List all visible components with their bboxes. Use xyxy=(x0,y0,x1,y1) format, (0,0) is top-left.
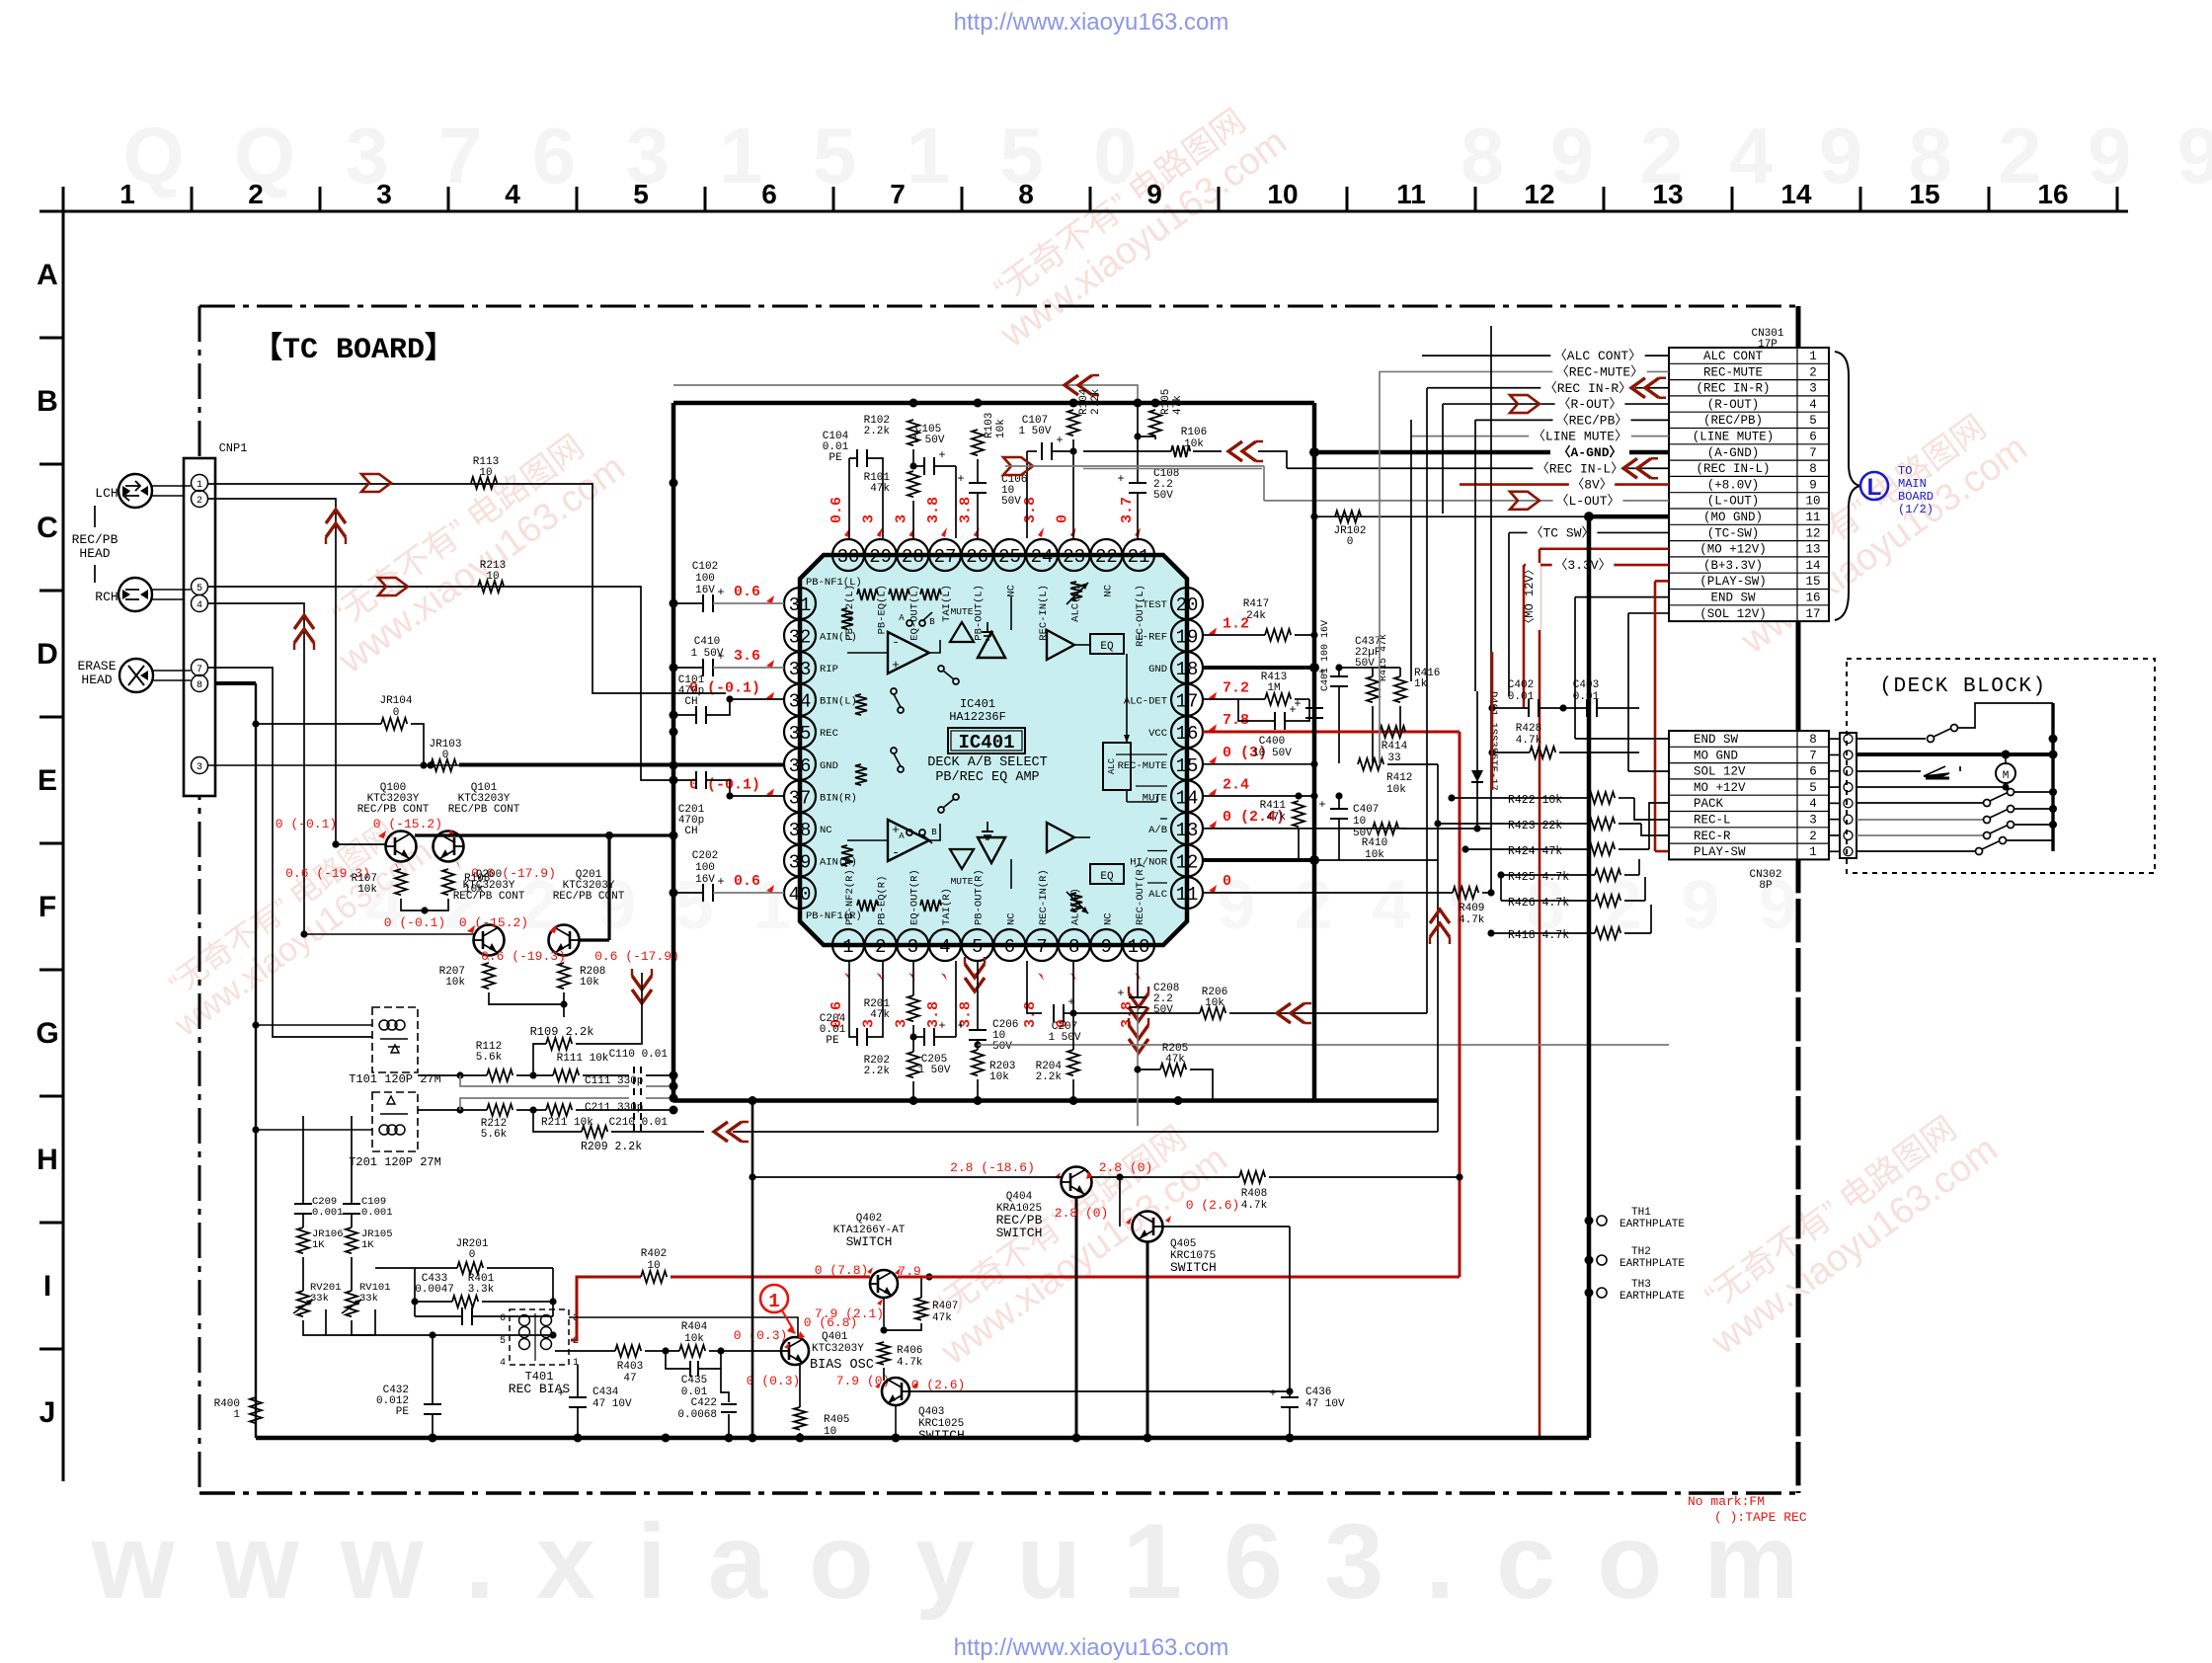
svg-text:16: 16 xyxy=(1805,592,1820,605)
resistor R400 xyxy=(250,1397,262,1423)
IC401 pin 28 xyxy=(897,539,928,571)
wire r204 xyxy=(1072,961,1074,1050)
transformer T401 xyxy=(510,1309,569,1365)
wire B+3.3V xyxy=(1524,564,1669,567)
svg-text:3.8: 3.8 xyxy=(1022,1001,1039,1028)
svg-text:PLAY-SW: PLAY-SW xyxy=(1694,845,1746,859)
svg-text:C435: C435 xyxy=(681,1375,707,1386)
wire r423 xyxy=(1438,823,1589,825)
svg-text:CNP1: CNP1 xyxy=(219,441,248,455)
svg-text:0: 0 xyxy=(1055,515,1071,523)
chev up1 xyxy=(326,510,346,523)
svg-text:30: 30 xyxy=(837,546,860,568)
svg-text:A: A xyxy=(899,613,905,623)
resistor R209 xyxy=(582,1126,607,1138)
svg-text:0 (2.6): 0 (2.6) xyxy=(911,1378,966,1392)
CN301 brace xyxy=(1835,352,1860,620)
IC401 pin 39 xyxy=(784,844,816,876)
svg-text:C401 100 16V: C401 100 16V xyxy=(1320,620,1331,691)
switch A/B bottom xyxy=(907,830,912,835)
svg-text:RIP: RIP xyxy=(820,664,838,675)
svg-text:SWITCH: SWITCH xyxy=(846,1234,893,1249)
svg-text:0 (-0.1): 0 (-0.1) xyxy=(276,817,337,831)
svg-text:L: L xyxy=(1867,474,1882,501)
wire r105 xyxy=(1138,436,1155,439)
IC401 pin 3 xyxy=(897,929,928,961)
svg-text:LCH: LCH xyxy=(95,486,118,501)
resistor R411 xyxy=(1293,801,1304,827)
IC401 pin 25 xyxy=(993,539,1025,571)
svg-text:1: 1 xyxy=(768,1291,779,1312)
resistor R409 xyxy=(1453,887,1478,899)
wire c422 xyxy=(721,1369,729,1402)
svg-text:39: 39 xyxy=(789,851,812,873)
svg-text:MUTE: MUTE xyxy=(951,876,974,887)
wire MO GND thin xyxy=(1314,515,1589,517)
svg-text:12: 12 xyxy=(1176,851,1199,873)
IC401 pin 2 xyxy=(865,929,897,961)
svg-text:3: 3 xyxy=(197,762,202,773)
junction xyxy=(670,761,678,770)
svg-text:(SOL 12V): (SOL 12V) xyxy=(1699,607,1767,621)
wire c436 xyxy=(1289,1407,1291,1438)
svg-text:NC: NC xyxy=(1005,585,1017,597)
resistor JR103 xyxy=(431,759,456,771)
svg-text:4.7k: 4.7k xyxy=(1241,1200,1268,1212)
svg-text:1 50V: 1 50V xyxy=(917,1065,950,1076)
bus 1331 xyxy=(1312,403,1317,1101)
svg-text:24: 24 xyxy=(1031,546,1054,568)
IC401 pin 20 xyxy=(1171,588,1203,619)
svg-text:JR104: JR104 xyxy=(379,695,412,707)
chev up2 xyxy=(294,615,314,629)
wire JR104 xyxy=(256,723,381,725)
TC board border top xyxy=(199,305,1798,308)
svg-text:(+8.0V): (+8.0V) xyxy=(1707,478,1760,492)
deck wire REC-L xyxy=(1856,819,1983,821)
svg-text:+: + xyxy=(717,586,724,599)
capacitor C202 xyxy=(702,884,704,902)
svg-text:1k: 1k xyxy=(1414,678,1428,690)
svg-text:9: 9 xyxy=(1101,936,1112,958)
svg-text:8: 8 xyxy=(1809,733,1817,747)
wire jr201 row xyxy=(302,1116,304,1146)
svg-text:+: + xyxy=(957,1019,964,1033)
resistor R416 xyxy=(1394,676,1406,702)
wire Q200 base xyxy=(304,933,474,935)
svg-text:6: 6 xyxy=(500,1313,506,1324)
bus mo gnd vert xyxy=(1587,516,1592,1438)
svg-text:9: 9 xyxy=(1146,179,1162,209)
svg-text:J: J xyxy=(39,1396,56,1429)
svg-text:10 50V: 10 50V xyxy=(1252,748,1292,759)
wire 3.3V vert xyxy=(1523,565,1526,708)
svg-text:0 (-15.2): 0 (-15.2) xyxy=(459,915,528,930)
svg-text:IC401: IC401 xyxy=(958,732,1014,753)
svg-text:1.2: 1.2 xyxy=(1223,616,1249,633)
IC401 pin 31 xyxy=(784,588,816,619)
wire c111 xyxy=(460,1075,629,1086)
resistor JR105 xyxy=(346,1227,357,1253)
wire c105 xyxy=(912,449,914,466)
svg-text:3.3k: 3.3k xyxy=(468,1284,495,1296)
resistor R401 xyxy=(452,1296,478,1307)
svg-text:R104: R104 xyxy=(1078,388,1090,415)
svg-text:HEAD: HEAD xyxy=(79,546,110,561)
wire c106 line xyxy=(1005,465,1264,467)
wire r103c106 xyxy=(977,459,979,483)
svg-text:NC: NC xyxy=(1102,912,1114,925)
wire SOL 12V xyxy=(1628,612,1669,614)
svg-text:EARTHPLATE: EARTHPLATE xyxy=(1619,1219,1685,1230)
svg-text:1K: 1K xyxy=(312,1239,325,1251)
wire PLAY-SW vert xyxy=(1654,581,1657,851)
resistor R101 xyxy=(908,471,919,497)
svg-text:(TC-SW): (TC-SW) xyxy=(1707,526,1760,540)
svg-text:〈L-OUT〉: 〈L-OUT〉 xyxy=(1555,494,1619,509)
wire MO GND thick xyxy=(1589,515,1669,519)
capacitor C206 xyxy=(969,1029,987,1031)
svg-text:0.0047: 0.0047 xyxy=(415,1284,454,1296)
svg-text:R111 10k: R111 10k xyxy=(557,1053,609,1065)
svg-text:H: H xyxy=(37,1144,58,1176)
wire jr201 xyxy=(375,1267,457,1269)
wire pin4 xyxy=(207,603,304,934)
svg-text:3.8: 3.8 xyxy=(958,497,975,523)
transistor Q403 xyxy=(882,1378,909,1405)
svg-text:3: 3 xyxy=(861,515,878,523)
svg-text:7: 7 xyxy=(890,179,906,209)
capacitor C201 xyxy=(695,771,697,789)
svg-text:R428: R428 xyxy=(1516,723,1541,735)
svg-text:4.7k: 4.7k xyxy=(1459,914,1485,926)
bus bottom xyxy=(673,1098,1438,1103)
svg-text:〈REC-MUTE〉: 〈REC-MUTE〉 xyxy=(1556,364,1643,379)
svg-text:M: M xyxy=(2003,770,2010,782)
wire RCH to CNP1 xyxy=(152,589,191,591)
svg-text:19: 19 xyxy=(1176,627,1199,649)
capacitor C401 xyxy=(1305,707,1323,709)
resistor R426 xyxy=(1595,895,1620,907)
resistor R407 xyxy=(915,1298,927,1320)
connector deck strip xyxy=(1840,733,1856,858)
resistor R424 xyxy=(1589,843,1615,855)
wire R107R108 xyxy=(401,899,448,911)
svg-text:http://www.xiaoyu163.com: http://www.xiaoyu163.com xyxy=(954,1634,1229,1661)
IC401 pin 35 xyxy=(784,716,816,748)
svg-text:+: + xyxy=(1056,434,1063,447)
capacitor C437 xyxy=(1330,675,1348,677)
svg-text:〈REC IN-R〉: 〈REC IN-R〉 xyxy=(1544,381,1631,396)
svg-text:0 (0.3): 0 (0.3) xyxy=(747,1374,801,1388)
wire r425 xyxy=(1501,874,1595,876)
capacitor C433 xyxy=(461,1307,463,1325)
svg-text:16V: 16V xyxy=(695,874,715,886)
svg-text:(MO +12V): (MO +12V) xyxy=(1699,543,1767,557)
svg-text:2.4: 2.4 xyxy=(1223,776,1249,793)
resistor R412 xyxy=(1358,758,1383,770)
EQ box top xyxy=(1090,634,1124,654)
svg-text:1 50V: 1 50V xyxy=(690,648,723,660)
svg-text:〈8V〉: 〈8V〉 xyxy=(1571,478,1613,493)
wire MO +12V xyxy=(1540,547,1669,550)
mute amp top xyxy=(950,622,974,642)
chev down1 xyxy=(632,990,652,1003)
capacitor C402 xyxy=(1528,699,1530,717)
resistor R208 xyxy=(558,963,570,989)
svg-text:4: 4 xyxy=(1809,398,1817,412)
deck wire PLAY-SW xyxy=(1856,850,1975,852)
svg-text:TEST: TEST xyxy=(1143,599,1167,611)
svg-text:〈REC/PB〉: 〈REC/PB〉 xyxy=(1556,413,1628,428)
capacitor C407 xyxy=(1330,808,1348,810)
svg-text:R405: R405 xyxy=(824,1414,849,1426)
svg-text:10k: 10k xyxy=(1205,997,1224,1009)
svg-text:2.8 (-18.6): 2.8 (-18.6) xyxy=(950,1160,1035,1175)
IC401 pin 26 xyxy=(962,539,993,571)
svg-text:20: 20 xyxy=(1176,594,1199,616)
svg-text:SWITCH: SWITCH xyxy=(996,1226,1043,1240)
mute amp bottom xyxy=(950,849,974,869)
resistor R112 xyxy=(487,1069,513,1081)
svg-text:No mark:FM: No mark:FM xyxy=(1688,1494,1765,1509)
res inside 3 xyxy=(855,764,867,785)
wire 1511 vert xyxy=(1491,652,1494,790)
wire RCH pin5 xyxy=(207,587,673,780)
capacitor C107 xyxy=(1041,442,1043,460)
svg-text:22: 22 xyxy=(1095,546,1118,568)
wire R207R208 xyxy=(489,992,564,1004)
svg-text:EQ-OUT(R): EQ-OUT(R) xyxy=(908,869,920,925)
svg-text:17P: 17P xyxy=(1758,339,1777,351)
svg-text:+: + xyxy=(938,448,945,462)
svg-text:6: 6 xyxy=(1004,936,1015,958)
capacitor C434 xyxy=(569,1396,587,1398)
overline pin12 xyxy=(1147,850,1167,852)
bus left vertical xyxy=(671,403,676,1101)
red wire vcc xyxy=(1203,731,1460,734)
wire r426 xyxy=(1501,900,1595,902)
svg-text:T101 120P 27M: T101 120P 27M xyxy=(349,1072,441,1086)
svg-text:4: 4 xyxy=(505,179,520,209)
svg-text:(1/2): (1/2) xyxy=(1898,503,1934,516)
svg-text:GND: GND xyxy=(820,760,838,772)
svg-text:100: 100 xyxy=(695,862,715,874)
capacitor C207 xyxy=(1053,1004,1055,1022)
svg-text:REC/PB CONT: REC/PB CONT xyxy=(448,804,520,816)
svg-text:7.2: 7.2 xyxy=(1223,680,1249,697)
svg-text:END SW: END SW xyxy=(1694,733,1739,747)
svg-text:0: 0 xyxy=(442,750,449,761)
svg-text:1: 1 xyxy=(842,936,853,958)
svg-text:+: + xyxy=(1117,987,1124,1000)
capacitor R413cap xyxy=(1274,712,1276,730)
resistor JR106 xyxy=(297,1227,309,1253)
junction xyxy=(670,599,678,608)
red wire t401 xyxy=(571,1277,641,1340)
svg-text:0.6: 0.6 xyxy=(734,584,760,600)
svg-text:8P: 8P xyxy=(1759,880,1773,892)
arrow L-OUT xyxy=(1510,492,1540,510)
resistor R406 xyxy=(878,1342,890,1365)
resistor R113 xyxy=(471,477,497,489)
arrow r106 xyxy=(1228,441,1242,461)
svg-text:16V: 16V xyxy=(695,585,715,596)
svg-text:F: F xyxy=(39,891,56,923)
IC401 name box xyxy=(948,728,1025,753)
svg-text:REC-IN(L): REC-IN(L) xyxy=(1038,585,1050,641)
svg-text:ALC CONT: ALC CONT xyxy=(1703,350,1764,363)
overline pin15 xyxy=(1116,753,1167,755)
svg-text:NC: NC xyxy=(820,825,832,836)
svg-text:AIN(L): AIN(L) xyxy=(820,632,857,644)
svg-text:EQ-OUT(L): EQ-OUT(L) xyxy=(908,585,920,641)
svg-text:EARTHPLATE: EARTHPLATE xyxy=(1619,1258,1685,1270)
svg-text:REC/PB CONT: REC/PB CONT xyxy=(357,804,430,816)
wire c402 xyxy=(1492,707,1529,709)
wire LINE MUTE xyxy=(1411,436,1669,437)
svg-text:38: 38 xyxy=(789,820,812,841)
capacitor C108 xyxy=(1129,482,1146,484)
resistor R425 xyxy=(1595,869,1620,881)
resistor R410 xyxy=(1373,823,1398,834)
svg-text:+: + xyxy=(1269,1386,1276,1400)
svg-text:11: 11 xyxy=(1805,511,1820,524)
svg-text:0.6: 0.6 xyxy=(829,497,845,523)
svg-text:(REC IN-L): (REC IN-L) xyxy=(1696,462,1770,476)
svg-text:TH3: TH3 xyxy=(1631,1279,1651,1291)
svg-text:〈ALC CONT〉: 〈ALC CONT〉 xyxy=(1554,349,1641,363)
wire t101 in xyxy=(256,1024,372,1026)
gnd inside top xyxy=(987,622,988,632)
wire A-GND xyxy=(1314,450,1550,455)
svg-text:9: 9 xyxy=(1809,478,1817,492)
svg-text:I-REF: I-REF xyxy=(1136,632,1167,644)
earthplate TH3 xyxy=(1585,1289,1594,1298)
svg-text:47k: 47k xyxy=(1172,395,1184,415)
svg-text:32: 32 xyxy=(789,627,812,649)
wire c101 xyxy=(673,714,696,716)
resistor R203 xyxy=(972,1050,984,1075)
wire r404 xyxy=(709,1350,780,1352)
wire inside rec bottom xyxy=(1010,859,1012,889)
switch mid 2 xyxy=(891,748,897,753)
deck bus right xyxy=(2051,703,2054,851)
svg-text:10k: 10k xyxy=(1386,784,1406,796)
svg-text:MAIN: MAIN xyxy=(1898,477,1927,491)
switch mid 1 xyxy=(891,688,897,694)
svg-text:5: 5 xyxy=(197,584,202,594)
transistor Q404 xyxy=(1062,1167,1092,1198)
svg-text:+: + xyxy=(892,658,900,673)
chev up mid xyxy=(1430,910,1450,923)
wire r418 xyxy=(1491,932,1595,934)
svg-text:1 50V: 1 50V xyxy=(1018,426,1051,437)
resistor R211 xyxy=(546,1104,572,1116)
svg-text:TO: TO xyxy=(1898,464,1912,478)
capacitor C435 xyxy=(689,1361,691,1377)
svg-text:4.7k: 4.7k xyxy=(897,1357,923,1369)
svg-text:10k: 10k xyxy=(995,419,1007,438)
svg-text:3: 3 xyxy=(908,936,918,958)
res inside bot xyxy=(857,900,878,911)
svg-text:REC/PB CONT: REC/PB CONT xyxy=(553,891,625,903)
svg-text:47k: 47k xyxy=(870,483,890,495)
svg-text:Q401: Q401 xyxy=(822,1331,848,1343)
svg-text:REC-L: REC-L xyxy=(1694,814,1731,828)
wire c206 xyxy=(977,961,979,1030)
IC401 pin 36 xyxy=(784,749,816,780)
svg-text:〈REC IN-L〉: 〈REC IN-L〉 xyxy=(1537,461,1623,476)
resistor R106 xyxy=(1171,445,1190,457)
svg-text:21: 21 xyxy=(1128,546,1150,568)
deck motor M xyxy=(1996,763,2015,783)
capacitor C105 xyxy=(923,457,925,475)
deck wire REC-R xyxy=(1856,834,1983,836)
wire c410 xyxy=(673,667,703,669)
transistor Q100 xyxy=(386,831,417,862)
wire r406 xyxy=(883,1368,885,1381)
svg-text:RCH: RCH xyxy=(95,590,118,604)
wire CN302 to strip xyxy=(1829,834,1840,836)
bus vertical CN301 xyxy=(1796,306,1801,348)
TC board border bottom xyxy=(199,1491,1798,1494)
junction xyxy=(670,664,678,673)
svg-text:〈A-GND〉: 〈A-GND〉 xyxy=(1557,444,1621,460)
svg-text:(L-OUT): (L-OUT) xyxy=(1707,495,1760,509)
resistor JR201 xyxy=(457,1262,483,1274)
svg-text:BIN(L): BIN(L) xyxy=(820,696,857,708)
resistor R107 xyxy=(395,869,407,895)
wire L-OUT xyxy=(1264,500,1669,502)
svg-text:7: 7 xyxy=(197,665,202,675)
wire r412 xyxy=(1387,763,1438,765)
svg-text:Q404: Q404 xyxy=(1006,1191,1033,1203)
svg-text:50V: 50V xyxy=(1001,496,1021,508)
resistor R207 xyxy=(483,963,495,989)
svg-text:2: 2 xyxy=(248,179,264,209)
svg-text:14: 14 xyxy=(1780,179,1812,209)
transistor Q201 xyxy=(549,925,580,956)
svg-text:47 10V: 47 10V xyxy=(592,1398,632,1410)
wire r202 xyxy=(912,1037,914,1052)
resistor R413 xyxy=(1265,693,1291,705)
bus top xyxy=(673,401,1314,406)
svg-text:C211 330p: C211 330p xyxy=(585,1102,643,1114)
svg-text:R424 47k: R424 47k xyxy=(1508,845,1562,858)
svg-text:1K: 1K xyxy=(361,1239,374,1251)
wire inside amp1 xyxy=(847,652,888,654)
svg-text:2.8 (0): 2.8 (0) xyxy=(1099,1160,1153,1175)
wire CN302 to strip xyxy=(1829,850,1840,852)
svg-text:BIN(R): BIN(R) xyxy=(820,792,857,804)
svg-text:C110 0.01: C110 0.01 xyxy=(609,1049,669,1061)
svg-text:40: 40 xyxy=(789,884,812,906)
svg-text:5: 5 xyxy=(1809,414,1817,428)
wire Q201 xyxy=(579,938,609,941)
svg-text:END SW: END SW xyxy=(1710,592,1756,605)
svg-text:100: 100 xyxy=(695,573,715,585)
res inside 1 xyxy=(841,608,853,629)
wire vert bundle xyxy=(1379,371,1381,764)
transistor Q401 xyxy=(781,1337,809,1365)
svg-text:5: 5 xyxy=(1809,781,1817,795)
wire r416 xyxy=(1399,668,1401,676)
svg-text:R411: R411 xyxy=(1260,800,1287,812)
wire c435 xyxy=(666,1351,689,1369)
wire REC IN-L xyxy=(1287,467,1669,469)
wire c107 xyxy=(1027,451,1042,538)
